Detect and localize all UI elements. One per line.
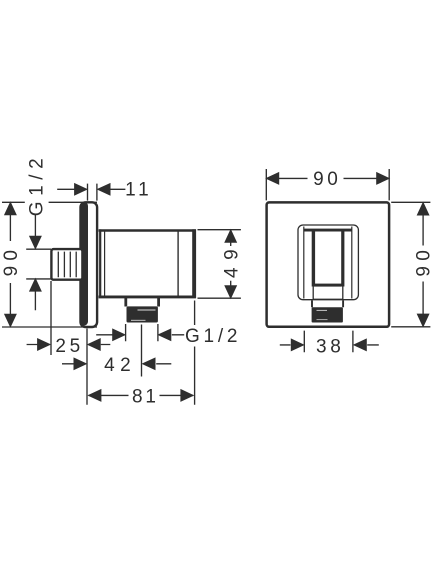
hook tab: [313, 286, 343, 299]
dim 49: dimension line: [230, 231, 232, 298]
svg-text:38: 38: [316, 336, 341, 357]
dim 90 top: extension lines: [266, 169, 389, 200]
dim 42: arrows and tails: [62, 363, 171, 365]
svg-text:90: 90: [1, 250, 22, 276]
holder outer (front view): [298, 225, 358, 300]
hook side bars: [312, 231, 315, 287]
dim 90 top: arrows: [266, 173, 278, 184]
svg-text:25: 25: [55, 336, 80, 357]
dim G1/2 outlet: extension lines: [126, 324, 158, 341]
svg-text:G1/2: G1/2: [27, 158, 48, 216]
dim 90 top: dimension line: [267, 177, 389, 179]
dim G1/2 inlet: leader and arrows: [34, 215, 36, 238]
dim 90 left: arrows: [5, 202, 16, 214]
dim G1/2 outlet: arrows and tails: [96, 334, 184, 336]
holder inner side lines: [304, 227, 352, 299]
connector neck (front view): [312, 300, 343, 307]
dim 81: dimension line: [89, 394, 194, 396]
dim 90 left: extension lines: [2, 202, 97, 327]
svg-text:42: 42: [104, 355, 130, 376]
outlet neck (side view): [126, 298, 159, 307]
dim 81: extension line right: [194, 301, 196, 405]
dim 11: arrows and tails: [57, 188, 125, 190]
dim 49: extension lines: [198, 230, 241, 299]
svg-text:81: 81: [132, 387, 156, 408]
dim 90 right: extension lines: [391, 202, 430, 326]
dim 49: arrows: [225, 230, 236, 242]
hook top bar: [304, 229, 352, 232]
connector knurl (front view): [312, 307, 343, 322]
dim 90 right: arrows: [417, 203, 428, 215]
dim 38: arrows and tails: [280, 344, 379, 346]
dim 90 left: dimension line: [9, 203, 11, 326]
wall seal bar (black plate edge): [80, 202, 88, 326]
wall plate outline (escutcheon, side view): [81, 202, 98, 327]
svg-text:90: 90: [414, 250, 435, 276]
svg-text:11: 11: [125, 180, 149, 201]
dim 11: extension lines: [88, 184, 97, 201]
escutcheon square (front view): [267, 202, 390, 326]
dim 42: center line of outlet: [141, 325, 143, 377]
svg-text:49: 49: [222, 249, 243, 278]
dim 38: extension lines: [304, 331, 353, 353]
dim 25: arrows and tails: [27, 344, 111, 346]
body (side view): [99, 229, 196, 298]
inlet stub G1/2 (threaded, side view): [51, 249, 82, 280]
svg-text:90: 90: [313, 169, 338, 190]
outlet knurl G1/2 (side view): [127, 306, 158, 322]
dim 25: extension lines: [51, 281, 87, 405]
dim 90 right: dimension line: [422, 204, 424, 326]
svg-text:G1/2: G1/2: [185, 326, 237, 347]
dim 81: arrows: [89, 390, 101, 401]
hook bottom bar: [314, 284, 342, 287]
